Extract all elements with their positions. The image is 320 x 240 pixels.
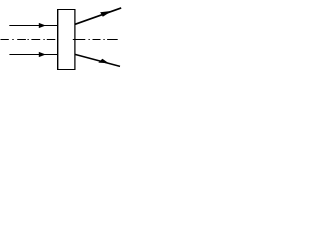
lower input ray wire <box>9 54 58 56</box>
upper input arrowhead <box>39 23 46 28</box>
upper input ray wire <box>9 25 58 27</box>
optical axis left segment (dash-dot) <box>1 39 56 41</box>
lower output ray wire <box>75 54 120 66</box>
background <box>0 0 124 75</box>
upper output ray wire <box>75 8 121 24</box>
box (scattering element) <box>57 9 75 70</box>
lower output arrowhead <box>98 59 109 64</box>
upper output arrowhead <box>100 11 112 17</box>
optical axis right segment (dash-dot) <box>73 39 118 41</box>
lower input arrowhead <box>39 52 46 57</box>
